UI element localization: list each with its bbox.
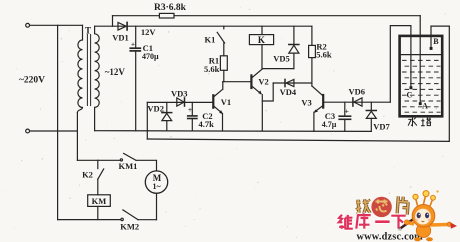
svg-text:~220V: ~220V [19, 76, 45, 86]
svg-text:+: + [188, 105, 192, 114]
diode VD5 [293, 26, 295, 44]
wire base corner down [146, 102, 148, 139]
transformer core [87, 35, 90, 106]
wire right leg up [448, 26, 450, 141]
wire K to VD5 [262, 68, 294, 70]
red seal circle [371, 197, 391, 217]
diode VD1 [118, 22, 126, 30]
capacitor C3 [344, 102, 346, 116]
switch K2 [97, 160, 99, 168]
svg-text:VD4: VD4 [280, 87, 297, 97]
terminal lower 220V [26, 129, 30, 133]
wire live branch down [57, 25, 59, 219]
char xin [376, 200, 388, 212]
transistor V2 [250, 75, 252, 88]
wire base rail right [324, 101, 390, 103]
transistor V3 [312, 86, 323, 95]
svg-text:A: A [422, 102, 428, 111]
ground rail [95, 130, 372, 133]
wire neutral [30, 130, 78, 132]
svg-text:T: T [85, 25, 91, 35]
node A dot [419, 102, 422, 105]
svg-text:C: C [407, 90, 413, 99]
char pian [397, 196, 408, 214]
svg-text:5.6k: 5.6k [316, 49, 332, 59]
svg-text:~12V: ~12V [105, 67, 126, 77]
mascot [398, 190, 458, 241]
svg-text:V3: V3 [301, 97, 311, 107]
diode VD7 [370, 102, 372, 110]
svg-text:VD3: VD3 [171, 89, 188, 99]
wire top jog to B [431, 25, 449, 27]
transformer T secondary winding [95, 26, 100, 131]
svg-text:4.7k: 4.7k [199, 119, 215, 129]
svg-text:+: + [131, 39, 135, 48]
resistor R3 [159, 13, 174, 18]
contactor coil KM box [88, 195, 111, 207]
svg-text:V2: V2 [258, 77, 268, 87]
terminal upper 220V [26, 23, 30, 27]
wire V1 collector to V2 base [223, 81, 251, 83]
diode VD6 [352, 98, 354, 106]
svg-text:12V: 12V [141, 27, 157, 37]
watermark dzsc [339, 190, 457, 242]
wire electrode C loop [390, 26, 411, 103]
wire electrode B drop [430, 26, 432, 48]
weiku yixia magenta [339, 213, 406, 228]
svg-text:www.dzsc.com: www.dzsc.com [357, 231, 424, 242]
contactor KM1 wire [77, 159, 120, 161]
svg-text:VD2: VD2 [147, 103, 164, 113]
water surface [401, 54, 440, 56]
diode VD4 [273, 82, 312, 84]
node C dot [410, 86, 413, 89]
svg-text:KM1: KM1 [118, 161, 137, 171]
svg-text:VD5: VD5 [273, 53, 290, 63]
svg-text:4.7µ: 4.7µ [322, 120, 337, 129]
capacitor C1 [135, 26, 137, 48]
svg-text:K: K [258, 35, 265, 45]
transformer T primary winding [77, 25, 82, 112]
lower sense rail [147, 139, 449, 141]
wire R3 riser [112, 16, 114, 27]
label 水塔 (strokes) [408, 118, 431, 126]
svg-text:KM2: KM2 [120, 221, 139, 231]
svg-text:VD7: VD7 [373, 122, 390, 132]
diode VD2 [166, 102, 168, 112]
wire R3 top left [113, 15, 160, 17]
svg-text:470µ: 470µ [142, 52, 159, 61]
svg-text:K1: K1 [204, 35, 215, 45]
wire primary bottom lead [76, 113, 78, 161]
svg-text:VD1: VD1 [112, 32, 129, 42]
wire base rail left [147, 101, 212, 103]
svg-text:R3·6.8k: R3·6.8k [154, 3, 187, 13]
svg-text:K2: K2 [82, 170, 93, 180]
wire live top [30, 24, 83, 26]
wire R3 top right [174, 15, 420, 17]
svg-text:+: + [345, 107, 349, 116]
node B dot [430, 47, 433, 50]
wire electrode A drop [419, 16, 421, 104]
diode VD3 [177, 98, 184, 106]
svg-text:VD6: VD6 [349, 86, 366, 96]
resistor R1 [223, 43, 225, 56]
water dashes [403, 60, 441, 112]
transistor V1 [212, 95, 214, 107]
char zhao [355, 199, 370, 214]
svg-text:B: B [433, 37, 439, 46]
svg-text:5.6k: 5.6k [204, 64, 220, 74]
water tank [400, 36, 443, 116]
motor M [156, 193, 158, 219]
capacitor C2 [191, 102, 193, 115]
wire 12V rail [95, 25, 312, 27]
svg-text:V1: V1 [221, 97, 231, 107]
resistor R2 [311, 26, 313, 45]
relay contact K1 [223, 26, 225, 29]
svg-text:KM: KM [92, 196, 107, 206]
bottom rail [58, 219, 121, 221]
relay coil K box [261, 26, 263, 34]
svg-text:1~: 1~ [153, 182, 162, 191]
